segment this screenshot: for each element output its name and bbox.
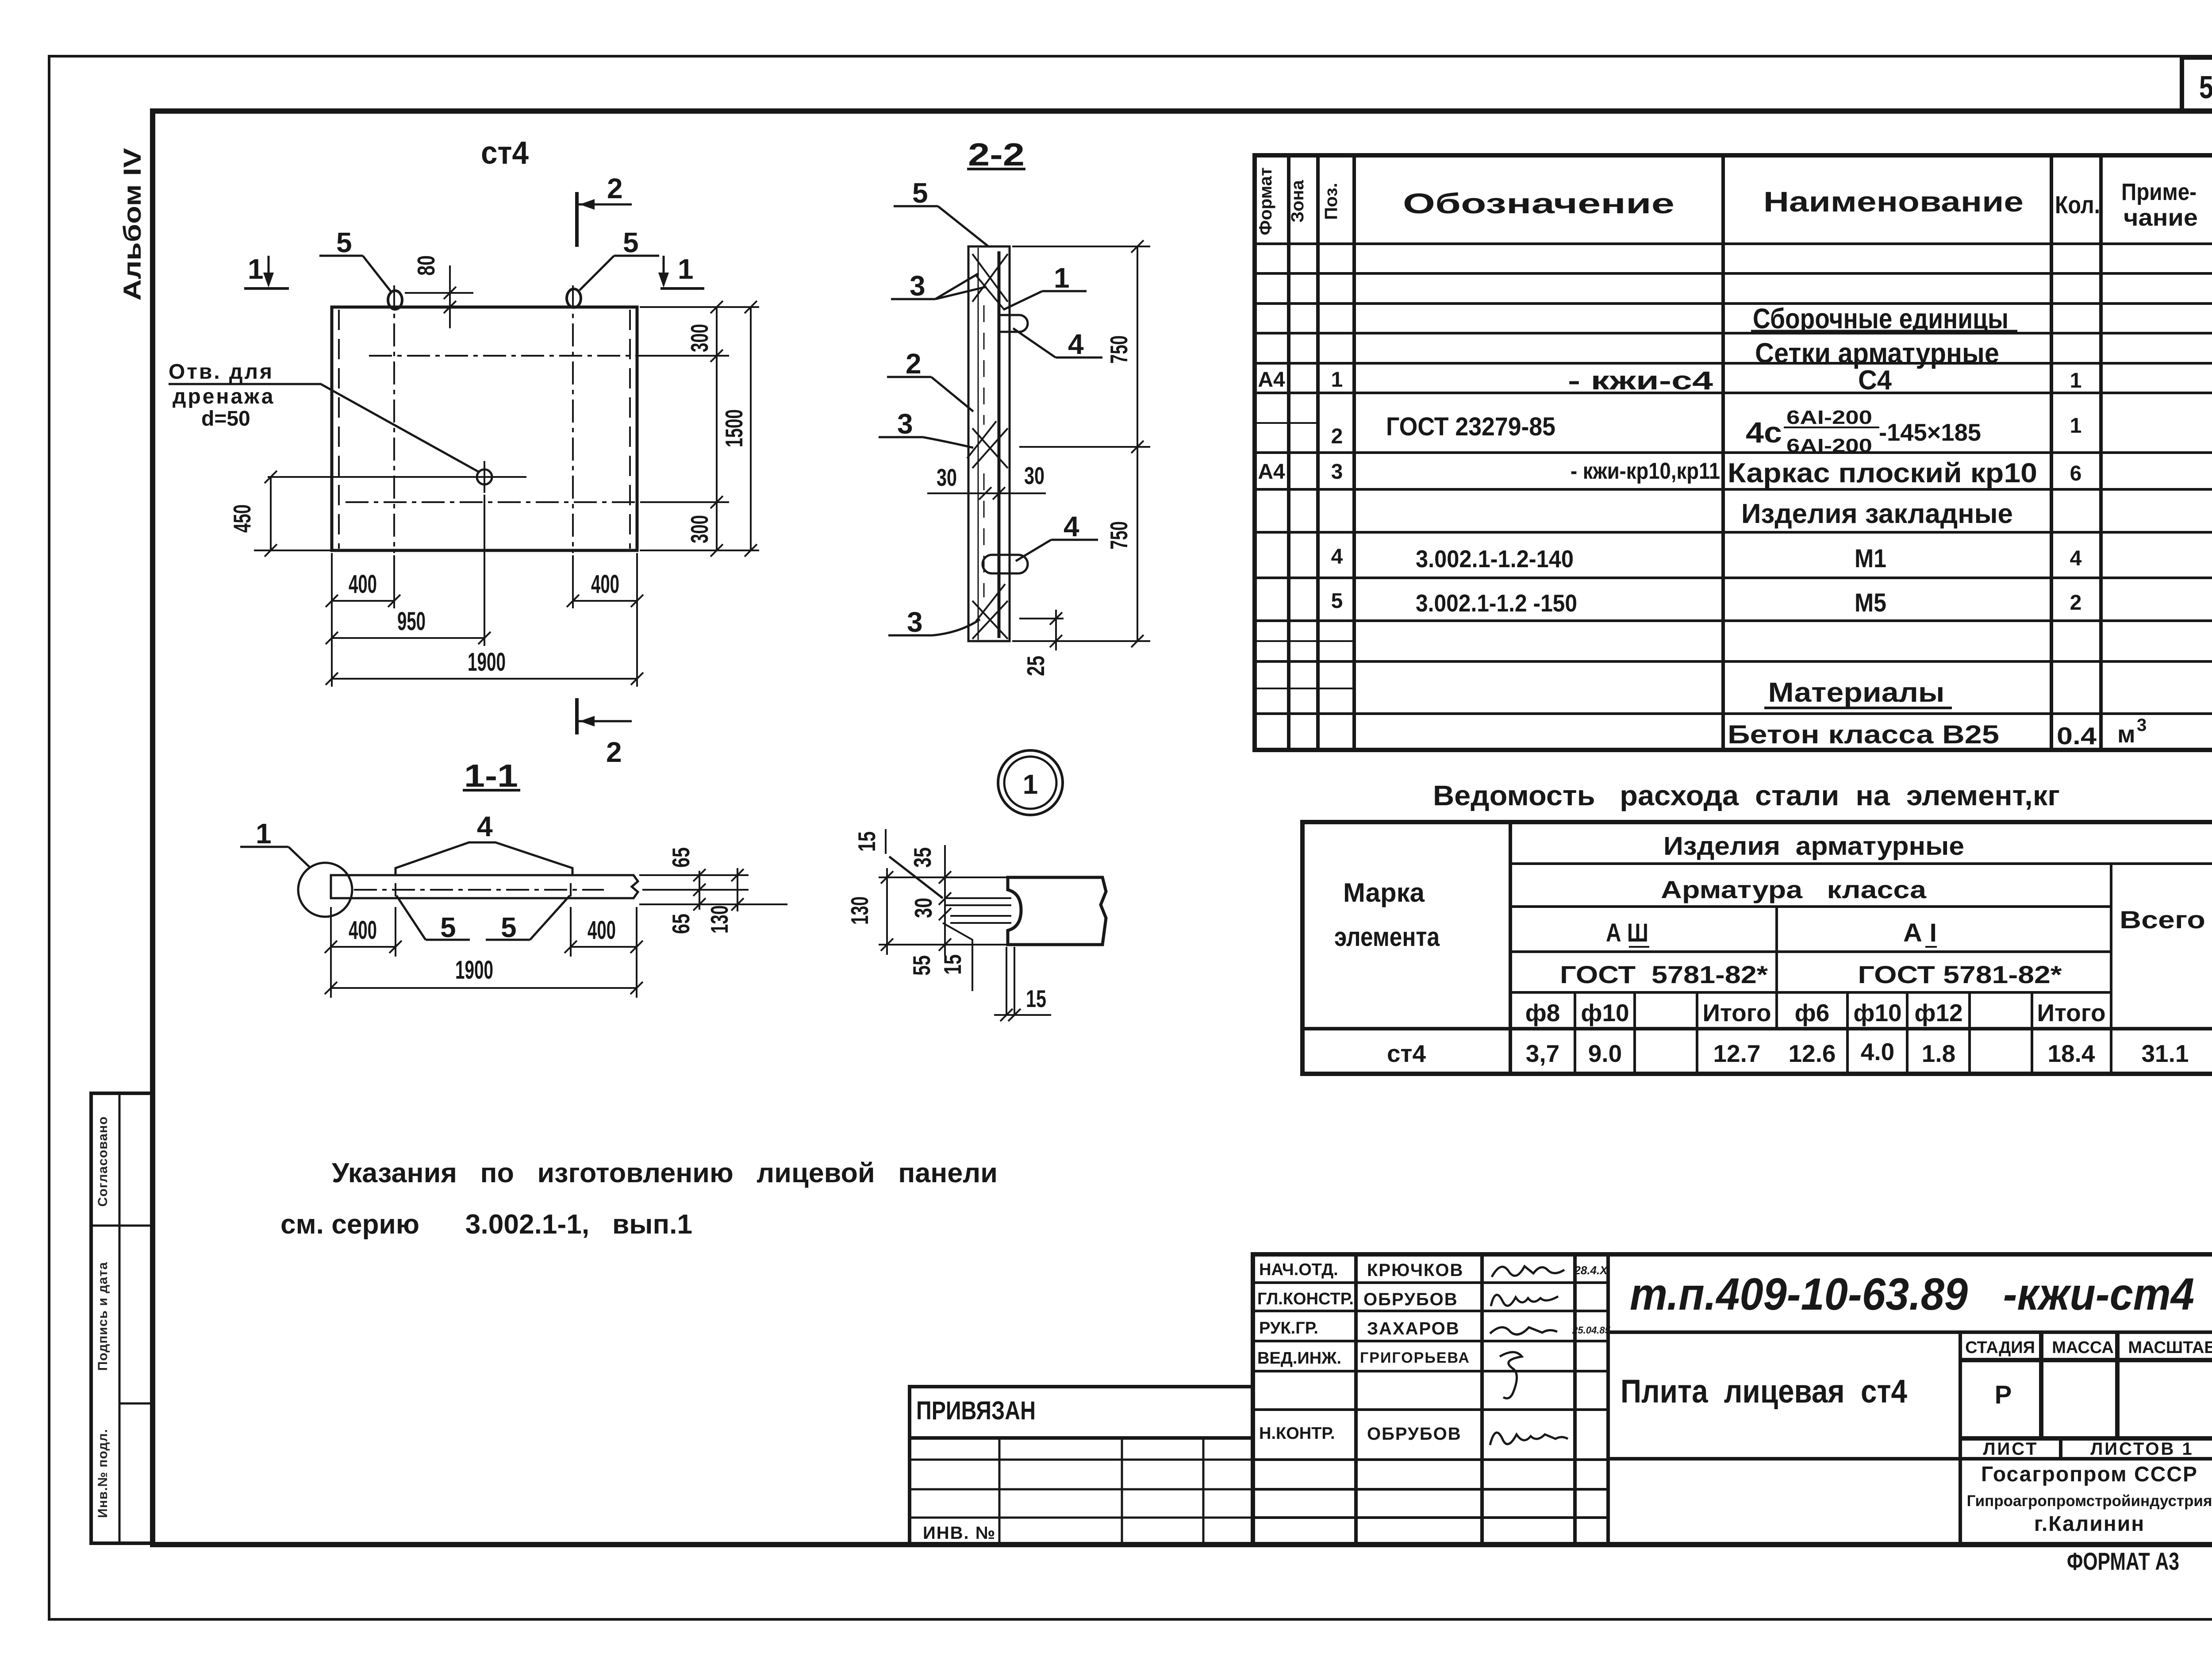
leader label 2 [887,348,973,411]
svg-text:6: 6 [2070,462,2082,485]
svg-text:Гипроагропромстройиндустрия: Гипроагропромстройиндустрия [1967,1492,2212,1510]
specification table row lines [1255,273,2212,714]
svg-text:400: 400 [588,916,616,945]
steel table data row line [1302,1027,2212,1030]
signature squiggle 3 [1490,1327,1557,1334]
section mark 1 left [244,253,289,288]
title block outer frame [1253,1254,2212,1545]
specification table header bottom line [1255,242,2212,245]
svg-text:Инв.№ подл.: Инв.№ подл. [96,1429,110,1518]
section 2-2 mesh C4 line [998,251,1001,638]
svg-text:м: м [2117,720,2135,748]
svg-text:А I: А I [1903,919,1937,947]
svg-text:1: 1 [248,253,264,285]
left stamp column outline [91,1093,153,1543]
dimension line 300/900/300 right [686,301,723,557]
section 1-1 title [463,758,520,794]
spec row 4 M1 [1331,544,2082,573]
svg-text:4.0: 4.0 [1861,1038,1894,1065]
signature squiggle 2 [1491,1295,1558,1306]
svg-text:130: 130 [706,905,733,934]
dimension 80 at left loop [405,255,473,328]
panel edge groove dashed line left [338,310,340,549]
svg-text:4с: 4с [1746,416,1782,449]
section 2-2 title [967,137,1025,173]
svg-text:г.Калинин: г.Калинин [2034,1512,2145,1536]
svg-text:15: 15 [853,831,880,852]
section 2-2 cross mark middle [967,421,1008,468]
svg-text:130: 130 [846,896,873,925]
svg-text:4: 4 [1064,511,1079,542]
dimension 1900 strip [325,956,643,994]
leader label 3 bottom [888,606,980,638]
svg-text:М5: М5 [1855,588,1886,617]
svg-text:ОБРУБОВ: ОБРУБОВ [1363,1290,1458,1309]
svg-text:-145×185: -145×185 [1879,419,1981,446]
svg-text:4: 4 [1068,328,1084,360]
svg-text:450: 450 [228,504,256,533]
svg-text:ст4: ст4 [481,135,529,171]
steel table line below class [1510,950,2111,953]
dimension 400 bottom left [326,570,400,607]
list row lines [1608,1438,2212,1459]
svg-text:ЗАХАРОВ: ЗАХАРОВ [1367,1319,1460,1338]
svg-text:ГОСТ 23279-85: ГОСТ 23279-85 [1386,412,1555,441]
svg-text:12.7: 12.7 [1713,1040,1760,1067]
svg-text:15: 15 [939,954,966,975]
svg-text:30: 30 [1024,462,1045,489]
svg-text:3: 3 [2137,715,2147,735]
drain hole reference line [268,476,526,478]
svg-text:Материалы: Материалы [1768,677,1945,708]
inner drawing frame [153,111,2212,1545]
svg-text:Альбом IV: Альбом IV [118,148,146,301]
spec row 3 flat frame [1258,458,2081,488]
dimension 400 strip right [565,916,643,953]
svg-text:5: 5 [336,227,352,258]
svg-text:1: 1 [1023,769,1038,800]
title block signature column lines [1356,1254,1608,1545]
svg-text:ф10: ф10 [1581,999,1629,1026]
extension lines right side [640,306,759,308]
detail 1 concrete edge profile [1008,877,1106,945]
svg-text:Итого: Итого [2037,999,2105,1026]
svg-text:30: 30 [910,898,937,918]
svg-text:ГРИГОРЬЕВА: ГРИГОРЬЕВА [1360,1349,1470,1366]
svg-text:ф6: ф6 [1795,999,1830,1026]
svg-text:5: 5 [912,177,928,209]
leader label 1 [1003,262,1087,310]
svg-text:1900: 1900 [468,648,506,676]
strip right extension lines [639,874,749,876]
svg-text:Согласовано: Согласовано [96,1116,110,1207]
svg-text:ф10: ф10 [1853,999,1901,1026]
steel table class split line [1775,907,1778,1029]
drain hole circle [477,469,492,484]
detail 1 leader 15 top [853,829,943,898]
svg-text:Сборочные единицы: Сборочные единицы [1753,303,2008,334]
specification table narrow column ticks [1255,423,1354,688]
svg-text:2: 2 [2070,591,2082,615]
svg-text:950: 950 [397,607,426,636]
steel table frame [1302,822,2212,1074]
svg-text:Указания по изготовлению: Указания по изготовлению лицевой панели [332,1158,998,1188]
title block signature row lines [1253,1283,1608,1518]
svg-text:Обозначение: Обозначение [1403,188,1674,219]
svg-text:3,7: 3,7 [1526,1040,1559,1067]
svg-text:5: 5 [1331,589,1343,613]
svg-text:9.0: 9.0 [1588,1040,1622,1067]
svg-text:Итого: Итого [1702,999,1771,1026]
title block signature texts [1257,1261,1354,1443]
detail 1 bottom extension [879,944,1008,946]
svg-text:3: 3 [1331,460,1343,484]
svg-text:18.4: 18.4 [2047,1040,2095,1067]
svg-text:Поз.: Поз. [1321,183,1341,220]
leader label 5 section top [894,177,988,246]
section 2-2 frame dashed line upper [983,305,985,425]
svg-text:28.4.Х: 28.4.Х [1574,1264,1608,1277]
svg-text:31.1: 31.1 [2141,1040,2189,1067]
signature squiggle 4 [1500,1352,1522,1398]
leader label 1 strip [240,818,310,867]
svg-text:М1: М1 [1855,544,1886,573]
svg-text:дренажа: дренажа [173,385,275,408]
dimension line 1500 right [720,301,757,557]
svg-text:65: 65 [667,847,695,868]
svg-text:- кжи-кр10,кр11: - кжи-кр10,кр11 [1571,458,1720,484]
svg-text:80: 80 [412,255,440,276]
leader label 5 strip left [396,896,470,943]
svg-text:НАЧ.ОТД.: НАЧ.ОТД. [1259,1261,1338,1279]
lower left grid column lines [999,1438,1203,1545]
lifting loop right [567,289,581,307]
svg-text:2-2: 2-2 [968,137,1025,173]
steel table line below armature products [1510,862,2212,865]
svg-text:чание: чание [2124,204,2198,231]
svg-text:6АI-200: 6АI-200 [1786,435,1872,457]
svg-text:d=50: d=50 [201,407,250,430]
centerline through left loop [393,285,395,553]
leader label 5 right loop [580,227,659,290]
section 1-1 strip outline [331,875,638,898]
steel table line below GOST [1510,991,2111,994]
detail 1 dimension column 35 30 55 15 [908,845,966,976]
svg-text:4: 4 [1331,545,1343,569]
svg-text:15: 15 [1026,985,1046,1012]
drain hole tick vertical [484,461,485,493]
svg-text:ЛИСТОВ 1: ЛИСТОВ 1 [2090,1439,2194,1459]
svg-text:МАССА: МАССА [2052,1338,2114,1357]
drain hole label text [169,360,275,430]
svg-text:КРЮЧКОВ: КРЮЧКОВ [1367,1261,1463,1280]
svg-text:ст4: ст4 [1387,1040,1426,1067]
svg-text:ф12: ф12 [1914,999,1962,1026]
detail 1 dimension 15 bottom [994,947,1051,1021]
privyazan box [910,1387,1253,1438]
plate name cell line vertical [1959,1332,1962,1545]
leader label 5 left loop [319,227,392,293]
page number box 52 [2182,58,2212,111]
svg-text:Формат: Формат [1256,167,1275,235]
dimension 65 65 strip [667,847,706,934]
svg-text:Марка: Марка [1343,878,1425,907]
svg-text:Зона: Зона [1288,180,1307,223]
steel table data row texts [1387,1038,2189,1067]
detail 1 lower diagonal leader [943,923,972,991]
svg-text:ОБРУБОВ: ОБРУБОВ [1367,1424,1462,1444]
svg-text:Каркас плоский кр10: Каркас плоский кр10 [1728,458,2037,488]
svg-text:1: 1 [1054,262,1070,294]
svg-text:1: 1 [2070,414,2082,438]
svg-text:4: 4 [477,811,493,842]
bottom extension lines plan [331,553,333,687]
svg-text:Госагропром СССР: Госагропром СССР [1981,1463,2198,1486]
svg-text:Сетки арматурные: Сетки арматурные [1755,337,1999,369]
dimension 450 drain hole left [228,471,332,557]
detail 1 balloon [998,750,1063,815]
signature squiggle 1 [1492,1266,1564,1277]
svg-text:т.п.409-10-63.89 -кжи-ст4: т.п.409-10-63.89 -кжи-ст4 [1630,1269,2194,1319]
lifting loop left [388,291,402,309]
embed M1 tab lower [983,555,1028,573]
svg-text:400: 400 [591,570,619,599]
svg-text:РУК.ГР.: РУК.ГР. [1259,1319,1318,1338]
svg-text:ВЕД.ИНЖ.: ВЕД.ИНЖ. [1257,1349,1341,1368]
section 2-2 cross mark top [972,254,1008,310]
svg-text:А4: А4 [1258,460,1285,484]
svg-text:ФОРМАТ А3: ФОРМАТ А3 [2067,1547,2179,1575]
svg-text:Арматура класса: Арматура класса [1661,876,1927,903]
spec row assembly units heading [1751,303,2017,334]
extension line section middle [1019,446,1150,448]
svg-text:3.002.1-1.2 -150: 3.002.1-1.2 -150 [1416,589,1577,617]
svg-text:2: 2 [906,348,922,380]
svg-text:см. серию 3.002.1-1, вы: см. серию 3.002.1-1, вып.1 [280,1209,692,1240]
specification table column lines [1289,155,2101,750]
detail balloon circle on strip end [298,863,352,917]
svg-text:400: 400 [349,916,377,945]
svg-text:ф8: ф8 [1525,999,1560,1026]
svg-text:0.4: 0.4 [2057,722,2097,750]
spec row 5 M5 [1331,588,2082,617]
svg-text:Плита лицевая ст4: Плита лицевая ст4 [1621,1373,1907,1410]
svg-text:400: 400 [349,570,377,599]
svg-text:ГЛ.КОНСТР.: ГЛ.КОНСТР. [1257,1290,1354,1308]
svg-text:1: 1 [1331,368,1343,392]
dimension 30 30 mesh cover [927,462,1046,500]
organization texts [1967,1463,2212,1536]
svg-text:Р: Р [1995,1380,2012,1409]
svg-text:ИНВ. №: ИНВ. № [923,1523,996,1543]
left stamp column middle line [119,1093,121,1543]
section mark 1 right [658,253,704,288]
svg-text:30: 30 [937,464,957,491]
svg-text:Подпись и дата: Подпись и дата [96,1262,110,1371]
leader label 4 upper [1013,328,1102,360]
left stamp column divider 2 [119,1403,153,1405]
panel outline (plan view) [332,307,637,550]
svg-text:А4: А4 [1258,368,1285,392]
svg-text:300: 300 [686,515,713,543]
svg-text:3.002.1-1.2-140: 3.002.1-1.2-140 [1416,545,1574,573]
svg-text:1: 1 [256,818,272,849]
svg-text:1900: 1900 [455,956,493,984]
section 2-2 cross mark bottom [972,584,1008,639]
steel table marka column line [1509,822,1512,1074]
leader label 3 middle [879,408,973,448]
svg-text:12.6: 12.6 [1788,1040,1836,1067]
svg-text:ГОСТ 5781-82*: ГОСТ 5781-82* [1858,961,2062,988]
steel table diameter row texts [1525,999,2106,1026]
detail 1 dimension 130 [846,868,893,955]
leader label 3 top [891,270,987,302]
svg-text:Н.КОНТР.: Н.КОНТР. [1259,1424,1335,1443]
svg-text:Отв. для: Отв. для [169,360,274,384]
leader label 4 strip [396,811,572,875]
left stamp column divider 1 [91,1225,153,1227]
panel edge groove dashed line right [629,310,631,549]
centerline through right loop [572,285,574,553]
svg-text:Наименование: Наименование [1763,186,2024,218]
embed mark left on strip [395,883,396,896]
svg-text:3: 3 [897,408,913,440]
section 2-2 inner face line [978,248,979,640]
svg-text:1: 1 [678,253,694,285]
dimension 400 strip left [325,916,402,953]
svg-text:750: 750 [1105,521,1133,550]
steel table diameter column lines [1575,992,2032,1074]
svg-text:С4: С4 [1858,365,1892,396]
strip bottom extension lines [330,907,332,998]
lower left grid outline [910,1438,1253,1545]
svg-text:МАСШТАБ: МАСШТАБ [2128,1338,2212,1357]
detail 1 top extension [879,876,1008,878]
svg-text:1-1: 1-1 [464,758,518,794]
section 2-2 frame dashed line lower [983,473,985,597]
svg-text:2: 2 [607,173,623,204]
section 1-1 centerline [354,889,604,891]
svg-text:Изделия закладные: Изделия закладные [1741,499,2013,529]
svg-text:5: 5 [623,227,639,258]
dimension 1900 bottom [326,648,643,685]
horizontal centerline lower [346,501,641,503]
section 2-2 concrete outline [968,246,1010,641]
spec row 2 GOST mesh [1331,407,2082,457]
stadia massa masshtab header row [1960,1332,2212,1438]
section mark 2 top [577,173,632,247]
svg-text:2: 2 [1331,425,1343,448]
drain hole leader line [169,384,479,472]
svg-text:- кжи-с4: - кжи-с4 [1568,366,1713,395]
svg-text:4: 4 [2070,547,2082,570]
embed mark right on strip [570,883,572,896]
svg-text:2: 2 [606,736,622,768]
svg-text:1: 1 [2070,369,2082,392]
svg-text:1500: 1500 [720,409,748,447]
detail 1 mesh bars protruding [945,898,1011,923]
svg-text:1.8: 1.8 [1922,1040,1955,1067]
steel table line below armatura klassa [1510,905,2111,908]
svg-text:Бетон класса В25: Бетон класса В25 [1728,720,1999,749]
svg-text:3: 3 [910,270,926,302]
svg-text:Приме-: Приме- [2121,179,2197,205]
svg-text:СТАДИЯ: СТАДИЯ [1965,1338,2035,1357]
horizontal centerline upper [369,355,642,357]
svg-text:750: 750 [1105,335,1133,364]
svg-text:5: 5 [440,911,456,943]
section mark 2 bottom [577,698,632,768]
svg-text:ЛИСТ: ЛИСТ [1983,1439,2038,1459]
embed M1 tab upper [998,315,1028,332]
dimension 130 strip [706,868,744,934]
svg-text:ГОСТ 5781-82*: ГОСТ 5781-82* [1560,961,1768,988]
dimension 25 bottom mesh offset [1019,610,1064,676]
svg-text:ПРИВЯЗАН: ПРИВЯЗАН [916,1396,1036,1425]
svg-text:25: 25 [1022,656,1049,676]
svg-text:Всего: Всего [2120,906,2205,934]
dimension 400 bottom right [567,570,643,607]
spec row materials heading [1764,677,1952,708]
spec row 1 mesh C4 [1258,365,2081,396]
svg-text:3: 3 [907,606,923,638]
svg-text:А Ш: А Ш [1606,919,1648,947]
leader label 5 strip right [486,896,570,943]
extension line section top [1012,246,1150,247]
svg-text:300: 300 [686,324,713,352]
svg-text:Изделия арматурные: Изделия арматурные [1663,832,1964,861]
extension line section bottom [1012,640,1150,642]
spec row concrete [1728,715,2147,750]
svg-text:5: 5 [501,911,517,943]
dimension 950 bottom [326,607,491,644]
svg-text:Ведомость расхода стали на: Ведомость расхода стали на элемент,кг [1433,780,2060,811]
project number cell line [1608,1330,2212,1334]
leader label 4 lower [1016,511,1098,561]
svg-text:55: 55 [908,955,935,976]
steel table vsego column line [2110,864,2112,1074]
specification table frame [1255,155,2212,750]
svg-text:25.04.85: 25.04.85 [1572,1325,1610,1336]
svg-text:6АI-200: 6АI-200 [1786,407,1872,428]
svg-text:элемента: элемента [1334,922,1440,952]
svg-text:65: 65 [667,914,695,934]
dimension line 750 750 [1105,240,1144,647]
svg-text:52: 52 [2199,70,2212,105]
svg-text:Кол.: Кол. [2055,191,2100,219]
signature squiggle 5 [1490,1433,1568,1445]
svg-text:35: 35 [909,847,936,868]
lower left grid row lines [910,1460,1253,1518]
